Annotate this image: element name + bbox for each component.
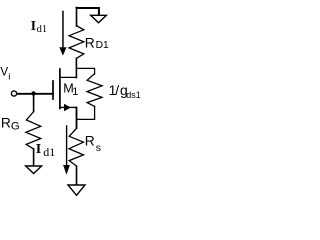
svg-text:G: G [11,121,20,133]
ground (below R_G) [26,166,42,174]
resistor R_s [69,129,84,167]
arrowhead current through R_s [63,165,70,175]
input terminal circle V_i [11,91,16,96]
svg-text:d1: d1 [43,145,55,159]
svg-text:i: i [8,71,10,82]
wire gate lead from input [17,93,53,95]
svg-text:I: I [36,142,41,157]
ground (below R_s) [68,185,85,195]
wire R_G top lead [33,94,35,112]
current arrow through R_s [66,126,68,165]
svg-text:R: R [85,35,95,50]
wire top rail to ground [77,8,99,15]
current arrow I_d1 (top) [62,12,64,49]
wire source node down to R_s [76,108,78,129]
svg-text:V: V [0,66,8,79]
wire drain node branch to 1/g_ds1 [77,68,95,74]
transistor M1 gate bar [52,81,54,99]
transistor M1 channel bar [59,69,61,109]
svg-text:/: / [115,82,119,98]
wire R_D1 top lead [76,8,78,27]
arrowhead I_d1 (top) [59,47,66,55]
arrowhead of M1 source [64,104,71,112]
resistor 1/g_ds1 [87,74,102,107]
svg-text:R: R [1,116,11,131]
resistor R_D1 [69,26,84,59]
svg-text:D1: D1 [96,40,109,51]
ground (top right) [91,15,107,22]
svg-text:d1: d1 [37,24,48,35]
wire 1/g_ds1 bottom lead to source node [77,106,95,119]
wire source lead of M1 [60,106,77,108]
wire drain lead of M1 [60,76,77,78]
svg-text:ds1: ds1 [126,90,141,100]
svg-text:s: s [96,142,101,154]
wire R_s bottom lead [76,166,78,185]
svg-text:1: 1 [72,86,78,98]
wire R_D1 bottom lead to drain node [75,58,77,77]
svg-text:R: R [85,134,95,149]
svg-text:I: I [31,18,36,33]
junction dot gate/R_G [31,91,35,95]
wire R_G bottom lead [33,149,35,166]
resistor R_G [26,112,41,150]
